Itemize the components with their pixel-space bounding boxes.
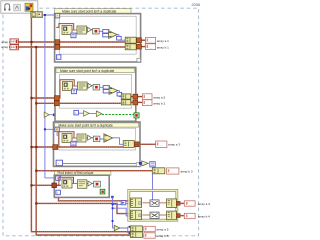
loop1 right tunnel a bbox=[137, 38, 142, 43]
svg-text:array a 2: array a 2 bbox=[153, 95, 165, 99]
S5 row b delete node bbox=[150, 212, 159, 218]
loop4 pi wire over node bbox=[57, 177, 74, 185]
indicator array b 2 bbox=[142, 100, 165, 106]
loop1 blue mini constant bbox=[71, 33, 76, 38]
loop3 i wire bbox=[63, 162, 142, 164]
structure S5 border bbox=[128, 189, 178, 221]
loop2 right tunnel b bbox=[133, 100, 138, 105]
loop1 greater triangle bbox=[87, 27, 91, 32]
svg-text:array b: array b bbox=[1, 45, 11, 49]
loop4 stop terminal bbox=[100, 189, 105, 194]
loop1 equal node with red dot bbox=[93, 28, 100, 34]
wire vertical V2 bbox=[36, 47, 131, 235]
loop1 chain wire bbox=[72, 29, 93, 31]
node b3 bbox=[152, 168, 165, 174]
svg-text:Make sure start point isn't a: Make sure start point isn't a duplicate bbox=[59, 123, 113, 127]
svg-text:..: .. bbox=[149, 40, 152, 43]
loop2 left tunnel b bbox=[54, 101, 59, 106]
S5 row a out wire bbox=[177, 202, 185, 204]
loop1 select yellow triangle bbox=[109, 31, 118, 39]
loop2 increment triangle bbox=[84, 111, 90, 117]
loop4 greater triangle bbox=[88, 181, 92, 186]
loop1 out wire a bbox=[136, 39, 145, 41]
S5 row b wires bbox=[143, 214, 167, 216]
svg-text:array b 5: array b 5 bbox=[156, 234, 168, 238]
loop3 index-array node bbox=[77, 134, 86, 142]
S5 row b left node bbox=[131, 210, 142, 219]
svg-text:..: .. bbox=[146, 103, 149, 106]
loop2 select yellow triangle bbox=[109, 87, 118, 95]
loop1 blue mini box 2 bbox=[117, 36, 122, 40]
loop1 i terminal bbox=[56, 55, 61, 60]
svg-text:..: .. bbox=[148, 235, 151, 238]
loop3 build node a3 bbox=[123, 141, 134, 148]
blue vertical from loop4 bbox=[112, 197, 130, 228]
loop4 index-array node bbox=[78, 180, 87, 189]
loop3 select yellow triangle bbox=[104, 134, 113, 142]
loop2 chain wire bbox=[73, 85, 94, 87]
loop2 i terminal bbox=[74, 110, 79, 115]
loop4 equal node with red dot bbox=[94, 181, 101, 187]
loop1 array-size node bbox=[62, 26, 72, 35]
svg-text:array a 1: array a 1 bbox=[157, 39, 169, 43]
wire into loop4 bbox=[31, 184, 60, 186]
indicator array a 3 bbox=[156, 141, 181, 147]
toolbar icon 3 bbox=[25, 3, 33, 11]
blue coercion box bbox=[121, 201, 126, 205]
svg-text:array a: array a bbox=[1, 40, 11, 44]
loop2 stop terminal bbox=[134, 113, 139, 118]
loop3 equal node with red dot bbox=[93, 136, 100, 142]
svg-text:..: .. bbox=[189, 216, 192, 219]
svg-text:array a 4: array a 4 bbox=[198, 202, 210, 206]
loop2 while border bbox=[55, 67, 136, 121]
S5 row a delete node bbox=[150, 200, 159, 206]
toolbar icon 1 bbox=[4, 4, 10, 11]
loop4 i terminal bbox=[56, 190, 61, 195]
loop2 out wire b bbox=[131, 101, 143, 103]
toolbar icon 2 bbox=[14, 4, 21, 11]
loop2 equal node with red dot bbox=[93, 84, 100, 90]
loop2 out wire a bbox=[131, 96, 143, 98]
loop2 right tunnel a bbox=[133, 94, 138, 99]
loop2 blue mini constant bbox=[71, 89, 76, 94]
indicator array b 3 bbox=[167, 168, 193, 174]
loop3 right tunnel bbox=[134, 142, 139, 147]
wire row b3 overlay across title bbox=[50, 170, 111, 172]
node index array a5 bbox=[130, 226, 142, 232]
loop3 blue wire inside bbox=[56, 132, 58, 136]
loop3 i terminal bbox=[56, 160, 62, 165]
increment triangle bottom bbox=[114, 225, 120, 230]
loop3 blue tunnel bbox=[55, 127, 59, 131]
loop2 greater triangle bbox=[88, 83, 92, 88]
loop3 blue mini constant bbox=[71, 141, 76, 146]
wire blue main vertical bbox=[43, 14, 57, 178]
svg-text:2006: 2006 bbox=[192, 3, 200, 7]
loop2 array-size node bbox=[63, 82, 73, 91]
loop1 left tunnel a bbox=[55, 40, 60, 45]
loop1 while border bbox=[55, 14, 141, 62]
loop4 chain wire bbox=[72, 182, 94, 184]
loop3 left tunnel bbox=[53, 145, 58, 150]
loop1 blue stack boxes bbox=[103, 30, 109, 37]
loop2 index-array node bbox=[78, 82, 88, 90]
junction dots maroon bbox=[30, 41, 37, 205]
loop2 build node a bbox=[121, 94, 130, 99]
loop1 chain wire blue bbox=[99, 31, 125, 40]
loop4 title bar bbox=[54, 170, 111, 175]
S5 row a left node bbox=[131, 198, 142, 207]
indicator array a 1 bbox=[146, 37, 170, 43]
loop1 right tunnel b bbox=[137, 44, 142, 49]
S5 row b out wire bbox=[177, 215, 185, 217]
loop2 title bar bbox=[56, 68, 134, 73]
wire into loop2 row a bbox=[31, 97, 60, 99]
control terminal array b bbox=[1, 45, 18, 50]
svg-text:array b 3: array b 3 bbox=[181, 170, 193, 174]
indicator array a 4 bbox=[184, 201, 210, 207]
node index array b5 bbox=[130, 232, 142, 238]
wire into loop2 row b bbox=[36, 102, 121, 104]
subVI node N1 bbox=[31, 12, 43, 18]
loop3 while border bbox=[54, 122, 141, 166]
loop4 while border bbox=[54, 175, 109, 197]
loop3 greater triangle bbox=[88, 135, 92, 140]
loop2 left tunnel a bbox=[54, 96, 59, 101]
S5 row b right node bbox=[167, 211, 177, 220]
wire into loop3 bbox=[31, 146, 123, 148]
S5 row b right tunnel bbox=[176, 214, 180, 218]
blue wires bottom bbox=[120, 226, 131, 234]
loop2 blue mini box 2 bbox=[117, 92, 122, 96]
toolbar box bbox=[1, 1, 38, 13]
loop1 index-array node bbox=[77, 26, 87, 34]
loop2 bottom blue wires bbox=[78, 112, 96, 114]
loop3 chain wire bbox=[72, 137, 93, 139]
svg-text:Make sure start point isn't a: Make sure start point isn't a duplicate bbox=[60, 69, 114, 73]
loop1 inner for loop bbox=[59, 16, 136, 54]
loop3 pi wire over node bbox=[56, 132, 74, 147]
svg-text:..: .. bbox=[189, 204, 192, 207]
svg-text:array b 1: array b 1 bbox=[157, 46, 169, 50]
loop2 pi wire over node bbox=[60, 80, 74, 98]
wire row b3 bbox=[36, 170, 152, 172]
svg-text:array b 2: array b 2 bbox=[153, 101, 165, 105]
wire array a horizontal bbox=[19, 41, 126, 43]
loop1 out wire b bbox=[136, 46, 145, 48]
svg-text:..: .. bbox=[149, 47, 152, 50]
loop4 array-size node bbox=[62, 179, 72, 188]
loop1 corner notch bbox=[137, 58, 141, 62]
loop4 N terminal bbox=[56, 176, 61, 181]
indicator array b 4 bbox=[184, 213, 210, 219]
indicator array a 2 bbox=[142, 94, 165, 100]
blue node after increment bbox=[150, 162, 155, 167]
svg-text:..: .. bbox=[160, 144, 163, 147]
S5 row a right tunnel bbox=[176, 201, 180, 205]
svg-text:Make sure start point isn't a: Make sure start point isn't a duplicate bbox=[62, 9, 116, 13]
indicator array a 5 bbox=[144, 226, 169, 231]
indicator array b 1 bbox=[146, 44, 170, 50]
svg-text:..: .. bbox=[171, 171, 174, 174]
loop2 inner for loop bbox=[60, 74, 132, 108]
wire loop4 out to S5 row a bbox=[59, 197, 130, 201]
loop1 N terminal bbox=[55, 13, 60, 18]
svg-text:array a 5: array a 5 bbox=[156, 228, 168, 232]
increment triangle after loop3 bbox=[142, 161, 148, 166]
loop3 inner for loop bbox=[58, 128, 135, 150]
loop1 build node b bbox=[125, 44, 136, 50]
svg-text:..: .. bbox=[146, 97, 149, 100]
svg-text:array b 4: array b 4 bbox=[198, 215, 210, 219]
loop3 out wire a3 bbox=[134, 143, 155, 145]
loop2 blue stack boxes bbox=[103, 86, 109, 93]
S5 row a right node bbox=[167, 199, 177, 208]
loop3 chain wire blue bbox=[100, 138, 123, 145]
indicator array b 5 bbox=[144, 233, 169, 238]
loop2 build node b bbox=[121, 100, 130, 105]
loop3 i tunnel dot bbox=[139, 162, 142, 165]
loop1 left tunnel b bbox=[55, 45, 60, 50]
loop4 left tunnel bbox=[52, 183, 57, 188]
control terminal array a bbox=[1, 39, 18, 44]
S5 row a wires bbox=[143, 202, 167, 204]
loop4 out blue junction bbox=[111, 196, 113, 198]
loop1 pi wire over node bbox=[56, 24, 73, 30]
blue wire down to S5 bbox=[152, 167, 154, 200]
loop1 build node a bbox=[125, 37, 136, 43]
svg-text:..: .. bbox=[148, 229, 151, 232]
loop2 chain wire blue bbox=[100, 87, 122, 96]
loop3 corner notch bbox=[136, 163, 140, 167]
wire V2 branch to S5 row b bbox=[36, 203, 130, 213]
increment triangle into loop2 bbox=[44, 112, 55, 117]
svg-text:array a 3: array a 3 bbox=[168, 143, 180, 147]
loop3 array-size node bbox=[62, 134, 72, 143]
dashed page border bbox=[3, 8, 199, 236]
wire array b horizontal bbox=[19, 46, 126, 48]
wire vertical V1 bbox=[31, 18, 130, 232]
loop2 equal triangle bbox=[96, 111, 102, 117]
loop3 title bar bbox=[55, 123, 139, 128]
loop1 title bar bbox=[55, 9, 131, 14]
loop2 green wire to stop bbox=[102, 114, 134, 116]
